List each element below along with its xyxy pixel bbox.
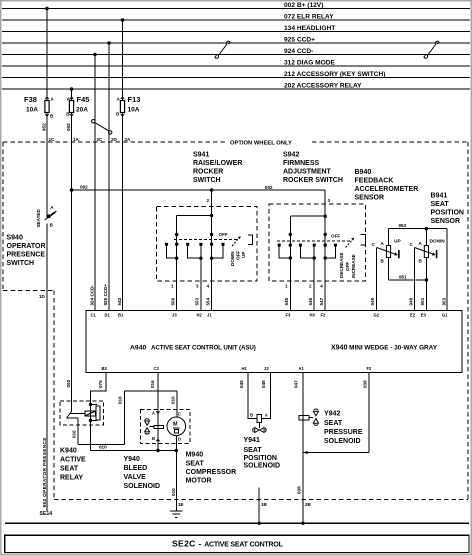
- svg-text:038: 038: [297, 486, 302, 494]
- M940 label: [186, 452, 237, 485]
- bus 134 HEADLIGHT: [2, 31, 470, 33]
- svg-text:953: 953: [442, 297, 447, 305]
- wire S942 internal branch horizontal: [290, 215, 325, 217]
- relay coil feed-through: [90, 405, 92, 421]
- svg-text:ADJUSTMENT: ADJUSTMENT: [283, 169, 332, 176]
- A940 active seat control unit box: [86, 311, 462, 373]
- svg-text:949: 949: [370, 297, 375, 305]
- relay fixed contact link: [67, 418, 79, 420]
- wire 016 horizontal over Y940: [124, 390, 177, 392]
- wire 048 from J2: [262, 373, 271, 419]
- svg-text:FEEDBACK: FEEDBACK: [355, 178, 394, 185]
- B941 seat position sensor label: [431, 193, 464, 226]
- svg-text:016: 016: [72, 430, 77, 438]
- wire 953 drop to G1: [446, 229, 448, 311]
- svg-text:ROCKER SWITCH: ROCKER SWITCH: [283, 177, 343, 184]
- svg-text:H3: H3: [310, 313, 316, 318]
- svg-text:FIRMNESS: FIRMNESS: [283, 160, 320, 167]
- wire S942 pin3 drop: [324, 190, 326, 258]
- wire 1B riser: [258, 488, 260, 524]
- junction on CCD+: [107, 41, 111, 45]
- CCD wire labels above A940: [90, 284, 122, 306]
- svg-text:092: 092: [80, 185, 88, 190]
- relay coil: [85, 411, 96, 416]
- wire S941 pole 1: [176, 216, 178, 311]
- svg-text:2C: 2C: [97, 137, 104, 142]
- svg-text:4: 4: [207, 284, 210, 289]
- svg-text:INCREASE: INCREASE: [351, 254, 356, 278]
- svg-text:G1: G1: [442, 313, 448, 318]
- svg-text:925 CCD+: 925 CCD+: [284, 37, 315, 44]
- crossover mark between 2C and 2D: [92, 120, 112, 135]
- svg-text:2D: 2D: [111, 137, 118, 142]
- svg-text:134 HEADLIGHT: 134 HEADLIGHT: [284, 25, 335, 32]
- svg-text:F45: F45: [77, 95, 90, 104]
- bottom ground bus line: [5, 522, 469, 524]
- S941 rocker dashed line: [174, 239, 238, 241]
- svg-text:A: A: [265, 412, 268, 417]
- svg-text:M940: M940: [186, 452, 204, 459]
- svg-text:E3: E3: [421, 313, 427, 318]
- S942 junction dots: [324, 215, 327, 218]
- svg-text:202 ACCESSORY RELAY: 202 ACCESSORY RELAY: [284, 83, 362, 90]
- svg-text:312 DIAG MODE: 312 DIAG MODE: [284, 60, 336, 67]
- svg-text:PRESENCE: PRESENCE: [7, 252, 46, 259]
- svg-text:072 ELR RELAY: 072 ELR RELAY: [284, 14, 334, 21]
- A940 top pin labels: [91, 313, 449, 318]
- wire S941 contact L 3: [212, 244, 223, 258]
- svg-text:092: 092: [66, 123, 71, 131]
- wire left pot bottom: [388, 258, 390, 281]
- M940 seat compressor motor: [167, 417, 186, 436]
- svg-text:2A: 2A: [125, 137, 132, 142]
- svg-text:2B: 2B: [305, 502, 312, 507]
- svg-text:C1: C1: [91, 313, 97, 318]
- wire 952 from F38: [46, 113, 48, 218]
- K940 label: [60, 448, 86, 482]
- svg-text:554: 554: [205, 297, 210, 305]
- twisted pair mark left: [215, 41, 230, 58]
- svg-text:925 CCD+: 925 CCD+: [103, 284, 108, 306]
- S941 junction dots: [210, 214, 213, 217]
- M940 D drop to 010: [175, 435, 177, 450]
- wire labels below A940: [98, 380, 368, 388]
- wire S941 contact L 2: [188, 244, 201, 258]
- svg-text:951: 951: [420, 297, 425, 305]
- svg-text:D: D: [178, 437, 181, 442]
- junction M940 D on 010: [175, 449, 178, 452]
- S942 wire number labels: [284, 297, 324, 305]
- svg-text:2: 2: [309, 284, 312, 289]
- svg-text:10A: 10A: [128, 107, 140, 114]
- junction on B+: [45, 7, 49, 11]
- svg-text:Y942: Y942: [324, 411, 340, 418]
- twisted pair mark right: [424, 41, 439, 58]
- svg-text:4: 4: [320, 284, 323, 289]
- svg-text:048: 048: [261, 380, 266, 388]
- svg-text:079: 079: [98, 380, 103, 388]
- svg-text:POSITION: POSITION: [431, 210, 464, 217]
- relay mechanical link: [70, 413, 86, 415]
- svg-text:092: 092: [66, 379, 71, 387]
- svg-text:010: 010: [171, 488, 176, 496]
- relay armature bar: [96, 406, 100, 420]
- B941 right pot body: [424, 246, 428, 258]
- svg-text:SEATED: SEATED: [36, 209, 41, 228]
- svg-text:E2: E2: [410, 313, 416, 318]
- svg-text:952: 952: [42, 123, 47, 131]
- wire right pot top: [425, 229, 427, 246]
- svg-text:SEAT: SEAT: [60, 466, 79, 473]
- svg-text:VALVE: VALVE: [124, 474, 147, 481]
- svg-text:H2: H2: [197, 313, 203, 318]
- B941 left pot wiper: [377, 248, 399, 259]
- S940 operator presence switch blade: [45, 211, 57, 220]
- Y941 seat position solenoid: [253, 415, 266, 433]
- svg-text:MOTOR: MOTOR: [186, 478, 212, 485]
- svg-text:SWITCH: SWITCH: [193, 177, 221, 184]
- junction 953/right pot: [425, 227, 428, 230]
- small 016 labels: [66, 379, 176, 438]
- A940 bottom pin labels: [102, 366, 373, 371]
- S942 firmness adjustment rocker switch label: [283, 152, 343, 185]
- wire below S940 switch: [46, 224, 48, 511]
- K940 active seat relay dashed box: [60, 401, 104, 425]
- S942 contact squares: [278, 244, 281, 247]
- svg-text:10A: 10A: [26, 107, 38, 114]
- wire 949 wiper left drop: [376, 248, 378, 311]
- S940 box bottom jog: [3, 290, 54, 292]
- relay coil drop to 010: [90, 421, 92, 451]
- wire 047 from A1 through Y942: [302, 373, 304, 524]
- svg-text:ACTIVE SEAT CONTROL UNIT (ASU): ACTIVE SEAT CONTROL UNIT (ASU): [151, 345, 256, 352]
- Y942 seat pressure solenoid: [299, 409, 319, 425]
- svg-text:D1: D1: [105, 313, 111, 318]
- bus 038 segment F2 to Y942: [303, 452, 369, 454]
- svg-text:J2: J2: [264, 366, 269, 371]
- svg-text:PRESSURE: PRESSURE: [324, 429, 363, 436]
- svg-text:924 CCD-: 924 CCD-: [284, 48, 313, 55]
- junction 2B on bottom bus: [301, 522, 304, 525]
- svg-text:1E: 1E: [178, 502, 184, 507]
- bus 925 CCD+: [2, 42, 470, 44]
- wire F13 feed from ELR relay: [122, 20, 124, 101]
- S941 contact squares: [165, 243, 168, 246]
- svg-text:RAISE/LOWER: RAISE/LOWER: [193, 160, 242, 167]
- wire 925 CCD+ drop: [108, 43, 110, 142]
- wire 951 drop to E3: [425, 280, 427, 311]
- svg-text:ROCKER: ROCKER: [193, 169, 223, 176]
- svg-text:547: 547: [319, 297, 324, 305]
- svg-text:G2: G2: [374, 313, 380, 318]
- svg-text:002 B+ (12V): 002 B+ (12V): [284, 2, 323, 9]
- wire 016 riser left: [123, 391, 125, 444]
- S941 DOWN OFF UP rotated labels: [230, 251, 246, 266]
- S942 actuator dashed arrow: [346, 238, 355, 248]
- bus 010 ground: [91, 450, 177, 452]
- svg-text:UP: UP: [241, 252, 246, 258]
- junction on ELR relay: [121, 18, 125, 22]
- CCD drops continue to A940: [95, 142, 109, 311]
- svg-text:Y940: Y940: [124, 456, 140, 463]
- svg-text:SE14: SE14: [40, 511, 53, 517]
- wire left pot top: [388, 229, 390, 246]
- option dashed border bottom edge: [54, 499, 468, 501]
- svg-text:Y941: Y941: [244, 437, 260, 444]
- wire 092 from F45: [71, 113, 73, 401]
- svg-text:948: 948: [409, 297, 414, 305]
- svg-text:951: 951: [399, 275, 407, 280]
- bus 072 ELR RELAY: [2, 19, 470, 21]
- Y940 label: [124, 456, 161, 490]
- Y940/M940 dashed box: [141, 409, 190, 443]
- svg-text:556: 556: [171, 297, 176, 305]
- svg-text:952 OPERATOR PRESENCE: 952 OPERATOR PRESENCE: [42, 437, 48, 508]
- svg-text:SENSOR: SENSOR: [431, 218, 461, 225]
- svg-text:SWITCH: SWITCH: [7, 260, 35, 267]
- svg-text:B1: B1: [118, 313, 124, 318]
- option wheel only dashed border top left segment: [3, 141, 228, 143]
- svg-text:S941: S941: [193, 152, 209, 159]
- junction 951/right pot: [425, 278, 428, 281]
- svg-text:H1: H1: [242, 366, 248, 371]
- wire S941 pin3 riser: [200, 244, 202, 310]
- svg-text:OPERATOR: OPERATOR: [7, 243, 46, 250]
- svg-text:016: 016: [150, 380, 155, 388]
- svg-text:SOLENOID: SOLENOID: [124, 483, 161, 490]
- svg-text:A1: A1: [299, 366, 305, 371]
- svg-text:SENSOR: SENSOR: [355, 195, 385, 202]
- wire 016 relay link: [78, 443, 124, 445]
- fuse F45 20A: [69, 101, 73, 113]
- title bar: [5, 535, 469, 552]
- option dashed border top right segment: [312, 141, 468, 143]
- svg-text:SEAT: SEAT: [431, 201, 450, 208]
- wire S942 pin2 riser: [313, 245, 315, 310]
- svg-text:1: 1: [171, 284, 174, 289]
- svg-text:A940: A940: [130, 345, 146, 352]
- svg-text:B2: B2: [102, 366, 108, 371]
- svg-text:1D: 1D: [39, 294, 46, 299]
- B941 left pot body: [386, 246, 390, 258]
- wire S941 pin2 drop: [211, 190, 213, 258]
- svg-text:SEAT: SEAT: [324, 420, 343, 427]
- svg-text:2: 2: [207, 198, 210, 203]
- S942 rocker switch dashed box: [269, 204, 366, 281]
- svg-text:1B: 1B: [261, 502, 268, 507]
- svg-text:1: 1: [285, 284, 288, 289]
- bus 212 ACCESSORY (KEY SWITCH): [2, 77, 470, 79]
- wire F38 feed from B+: [46, 9, 48, 101]
- bus 924 CCD-: [2, 54, 470, 56]
- S941 rocker switch dashed box: [157, 207, 258, 282]
- svg-text:DOWN: DOWN: [230, 251, 235, 266]
- bus 002 B+ (12V): [2, 8, 470, 10]
- B941 wire number labels: [370, 297, 447, 305]
- fuse F13 10A: [120, 101, 124, 113]
- svg-text:B940: B940: [355, 169, 372, 176]
- junction 092 at S941 pin2: [210, 188, 214, 192]
- Y940 bleed valve solenoid symbol: [145, 419, 164, 434]
- label S940 OPERATOR PRESENCE SWITCH: [7, 235, 46, 268]
- S942 rocker dashed line: [277, 240, 351, 242]
- svg-text:OFF: OFF: [331, 234, 340, 239]
- wire S941 contact L 1: [167, 244, 177, 258]
- svg-text:OFF: OFF: [236, 251, 241, 260]
- below A940 wires: [78, 373, 369, 524]
- svg-text:UP: UP: [394, 239, 401, 245]
- svg-text:F3: F3: [286, 313, 292, 318]
- junction Y940 B on 010: [156, 449, 159, 452]
- svg-text:049: 049: [239, 380, 244, 388]
- wire 038 from F2: [368, 373, 370, 453]
- svg-text:OFF: OFF: [219, 232, 228, 237]
- svg-text:545: 545: [284, 297, 289, 305]
- S942 pin numbers: [285, 284, 323, 289]
- svg-text:1A: 1A: [73, 137, 80, 142]
- svg-text:COMPRESSOR: COMPRESSOR: [186, 469, 237, 476]
- wire S942 contact L 2: [300, 245, 314, 258]
- svg-text:542: 542: [117, 297, 122, 305]
- svg-text:B941: B941: [431, 193, 448, 200]
- wire S942 contact L 3: [325, 245, 335, 258]
- svg-text:OPTION WHEEL ONLY: OPTION WHEEL ONLY: [230, 141, 292, 147]
- bus 202 ACCESSORY RELAY: [2, 88, 470, 90]
- S942 DECREASE OFF INCREASE rotated labels: [339, 252, 356, 278]
- svg-text:C2: C2: [154, 366, 160, 371]
- svg-text:SOLENOID: SOLENOID: [244, 463, 281, 470]
- Y940 terminal marks: [156, 411, 159, 441]
- svg-text:DECREASE: DECREASE: [339, 252, 344, 278]
- option dashed border left upper edge: [2, 142, 4, 291]
- wire S941 pin4 lower: [211, 258, 213, 310]
- svg-text:J1: J1: [207, 313, 212, 318]
- svg-text:C: C: [178, 411, 181, 416]
- svg-text:546: 546: [308, 297, 313, 305]
- wire 016 from C2 to Y940: [157, 373, 159, 451]
- wire 079 from B2 to relay coil: [91, 373, 107, 405]
- fuse F38 10A: [45, 101, 49, 113]
- S941 pin numbers: [171, 284, 210, 289]
- ground drop 1E: [175, 451, 177, 511]
- svg-text:F2: F2: [321, 313, 327, 318]
- svg-text:1C: 1C: [49, 137, 56, 142]
- svg-text:BLEED: BLEED: [124, 465, 148, 472]
- junction 092 at F45 wire: [70, 188, 74, 192]
- svg-text:553: 553: [195, 297, 200, 305]
- wire 016 motor drop: [176, 391, 178, 417]
- svg-text:212 ACCESSORY (KEY SWITCH): 212 ACCESSORY (KEY SWITCH): [284, 71, 386, 78]
- svg-text:POSITION: POSITION: [244, 455, 277, 462]
- svg-text:038: 038: [363, 380, 368, 388]
- junction 1B on bottom bus: [258, 522, 261, 525]
- S941 wire number labels: [171, 297, 211, 305]
- option dashed border left lower edge: [53, 291, 55, 500]
- svg-text:016: 016: [171, 396, 176, 404]
- S941 actuator bracket: [248, 235, 253, 245]
- Y942 label: [324, 411, 363, 446]
- svg-text:X940 MINI WEDGE - 30-WAY GRAY: X940 MINI WEDGE - 30-WAY GRAY: [331, 345, 438, 352]
- junction on CCD-: [93, 53, 97, 57]
- svg-text:SEAT: SEAT: [186, 461, 205, 468]
- svg-text:016: 016: [118, 396, 123, 404]
- wire S941 internal branch horizontal: [177, 215, 212, 217]
- S941 raise/lower rocker switch label: [193, 152, 242, 185]
- svg-text:A: A: [152, 411, 155, 416]
- wire right pot bottom: [425, 258, 427, 281]
- bus 312 DIAG MODE: [2, 65, 470, 67]
- svg-text:ACCELEROMETER: ACCELEROMETER: [355, 186, 419, 193]
- Y941 label: [244, 437, 281, 470]
- svg-text:DOWN: DOWN: [430, 239, 446, 245]
- svg-text:20A: 20A: [76, 107, 88, 114]
- svg-text:S940: S940: [7, 235, 23, 242]
- B941 right pot wiper: [415, 248, 437, 259]
- wire S942 pole 1: [289, 216, 291, 310]
- wire 049 from H1: [248, 373, 257, 419]
- svg-text:SEAT: SEAT: [244, 447, 263, 454]
- svg-text:3: 3: [328, 198, 331, 203]
- B941 sensor circuit: [377, 229, 447, 311]
- svg-text:K940: K940: [60, 448, 77, 455]
- svg-text:B: B: [250, 412, 253, 417]
- S941 actuator dashed arrow: [232, 236, 241, 246]
- wire relay output: [77, 420, 79, 445]
- wire 953 top bus: [389, 228, 447, 230]
- wire S942 pin4 lower: [324, 258, 326, 311]
- wire F45 feed from accessory relay: [71, 89, 73, 101]
- svg-text:F38: F38: [24, 95, 37, 104]
- junction on accessory relay: [70, 87, 74, 91]
- relay armature stubs: [91, 404, 98, 406]
- wire 542 from F13: [122, 113, 124, 311]
- svg-text:F13: F13: [128, 95, 141, 104]
- svg-text:ACTIVE: ACTIVE: [60, 457, 86, 464]
- wire S942 contact L 1: [279, 245, 290, 258]
- wire 948 wiper right drop: [414, 248, 416, 311]
- B940 feedback accelerometer sensor label: [355, 169, 419, 202]
- svg-text:010: 010: [99, 445, 107, 450]
- svg-text:M: M: [173, 422, 178, 428]
- svg-text:SOLENOID: SOLENOID: [324, 438, 361, 445]
- svg-text:S942: S942: [283, 152, 299, 159]
- svg-text:OFF: OFF: [345, 262, 350, 271]
- svg-text:953: 953: [399, 223, 407, 228]
- ground symbol: [170, 511, 183, 518]
- wire 924 CCD- drop: [94, 55, 96, 143]
- wire 092 horizontal to rocker switches: [72, 189, 326, 191]
- svg-text:092: 092: [265, 185, 273, 190]
- svg-text:B: B: [152, 436, 155, 441]
- S942 actuator bracket: [361, 235, 366, 246]
- svg-text:J3: J3: [172, 313, 177, 318]
- svg-text:RELAY: RELAY: [60, 475, 83, 482]
- svg-text:924 CCD-: 924 CCD-: [90, 285, 95, 306]
- option dashed border right edge: [467, 142, 469, 500]
- relay contact blade: [71, 401, 73, 412]
- svg-text:3: 3: [196, 284, 199, 289]
- svg-text:F2: F2: [367, 366, 373, 371]
- connector labels bottom: [178, 502, 312, 507]
- wire 951 lower bus: [389, 279, 427, 281]
- svg-text:047: 047: [294, 380, 299, 388]
